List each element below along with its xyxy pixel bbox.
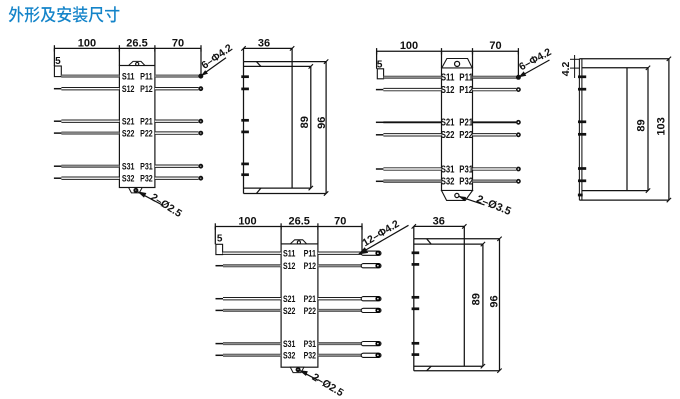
svg-text:S12: S12: [283, 261, 295, 271]
svg-text:P32: P32: [459, 177, 473, 188]
svg-text:P12: P12: [140, 84, 153, 94]
svg-text:26.5: 26.5: [126, 37, 147, 49]
tick side-view-3 89-dim bottom end: [481, 364, 485, 368]
svg-text:P21: P21: [304, 294, 316, 304]
svg-text:S22: S22: [441, 130, 455, 141]
diagram3 extension line box-right: [317, 227, 319, 244]
svg-text:S32: S32: [122, 174, 135, 184]
wire diagram1 lead row2 (left): [61, 88, 119, 90]
tick side-view-3 96-dim top end: [497, 237, 501, 241]
tick side2 103-dim bottom: [667, 198, 671, 202]
wire diagram1 lead row5 (left): [61, 165, 119, 167]
diagram3 extension line box-left: [280, 227, 282, 244]
diagram3 dim tick box-left: [280, 223, 282, 229]
diagram2 top flange (chamfered, hole): [442, 59, 472, 68]
side-view-3 body top line (outer): [414, 238, 500, 240]
tick side-view-3 36-dim left end: [412, 224, 416, 228]
tick side-view-1 96-dim bottom end: [324, 191, 328, 195]
side-view-1 terminal stub row4: [241, 131, 249, 134]
svg-text:26.5: 26.5: [288, 215, 309, 227]
tick side-view-1 36-dim left end: [241, 46, 245, 50]
diagram1 solder terminal dot row1: [198, 74, 203, 79]
side-view-1 extension right: [291, 48, 293, 61]
tick side-view-1 36-dim right end: [290, 46, 294, 50]
wire diagram2 lead S row1 (left): [384, 76, 442, 78]
side-view-3 89 dim line: [482, 244, 484, 366]
diagram2 lead end square (5mm): [377, 69, 383, 79]
side-view-1 body bottom line (inner): [244, 187, 311, 189]
side-view-1 width dim line (36): [244, 47, 293, 49]
side-view-1 body top line (inner): [244, 65, 311, 67]
svg-text:P32: P32: [304, 351, 316, 361]
svg-text:P11: P11: [140, 72, 153, 82]
diagram1 solder terminal dot row4: [198, 131, 203, 136]
diagram3 extension line right: [361, 227, 363, 251]
svg-text:P22: P22: [459, 130, 473, 141]
svg-text:5: 5: [217, 233, 223, 244]
svg-text:P22: P22: [140, 129, 153, 139]
diagram2 top dimension line: [377, 50, 519, 52]
side-view-1 terminal stub row6: [241, 173, 249, 176]
side2 terminal stub row6: [578, 179, 586, 182]
side-view-3 body front edge: [463, 239, 465, 366]
diagram1 top dimension line: [54, 47, 201, 49]
diagram3 top mounting lug (trapezoid + hole): [290, 240, 306, 244]
diagram2 solder terminal dot row2: [516, 87, 521, 92]
diagram1 solder terminal dot row3: [198, 119, 203, 124]
bare wire tip diagram2 row3 left: [376, 121, 384, 123]
side-view-1 96 dim line: [325, 62, 327, 194]
diagram3 spade lug terminal row5: [361, 342, 381, 346]
diagram1 extension line left: [53, 48, 55, 66]
side2 103 dim line: [668, 59, 670, 200]
side2 rail bottom clip: [578, 194, 583, 197]
svg-text:70: 70: [172, 37, 184, 49]
side-view-1 terminal stub row1: [241, 75, 249, 78]
side2 terminal stub row1: [578, 75, 586, 78]
side2 body top line (inner): [582, 67, 648, 69]
side-view-3 body top line (inner): [414, 243, 483, 245]
side-view-3 extension right: [463, 226, 465, 238]
svg-text:S11: S11: [441, 73, 455, 84]
diagram2 dim tick box-right: [472, 48, 474, 54]
side-view-1 terminal stub row3: [241, 119, 249, 122]
svg-text:70: 70: [489, 40, 501, 52]
side2 body front edge: [626, 68, 628, 191]
side-view-3 bottom chamfer: [427, 366, 432, 371]
diagram1 dim tick box-left: [118, 45, 120, 51]
diagram1 dim tick left: [53, 45, 55, 51]
svg-text:S21: S21: [283, 294, 295, 304]
side-view-1 bottom chamfer: [256, 188, 261, 193]
svg-text:P21: P21: [459, 118, 473, 129]
wire diagram2 lead row4 (right): [473, 134, 517, 136]
diagram2 extension line left: [376, 51, 378, 69]
side-view-3 width dim line (36): [414, 225, 465, 227]
wire diagram3 lead row3 (right): [318, 298, 362, 300]
wire diagram3 lead row5 (right): [318, 342, 362, 344]
svg-text:36: 36: [433, 215, 445, 227]
diagram3 relay body outline: [281, 244, 318, 367]
wire diagram3 lead row4 (right): [318, 309, 362, 311]
wire diagram2 lead row2 (left): [383, 88, 441, 90]
wire diagram3 lead row3 (left): [223, 298, 281, 300]
diagram2 dim tick left: [376, 48, 378, 54]
bare wire tip diagram3 row6 left: [216, 354, 224, 356]
wire diagram3 lead row2 (right): [318, 265, 362, 267]
side2 body bottom line (outer): [579, 199, 669, 201]
diagram1 top mounting lug (trapezoid + hole): [129, 61, 145, 65]
diagram1 solder terminal dot row6: [198, 176, 203, 181]
tick side2 103-dim top: [667, 57, 671, 61]
svg-text:S31: S31: [441, 164, 455, 175]
diagram2 solder terminal dot row3: [516, 120, 521, 125]
diagram1 relay body outline: [119, 66, 154, 188]
side-view-1 body front edge: [291, 62, 293, 189]
diagram1 leader + label 6-Φ4.2: [199, 42, 235, 76]
wire diagram2 lead row4 (left): [383, 134, 441, 136]
svg-text:36: 36: [258, 37, 270, 49]
svg-text:89: 89: [636, 119, 648, 131]
wire diagram2 lead row2 (right): [473, 88, 517, 90]
side-view-1 top chamfer: [256, 62, 261, 67]
svg-text:100: 100: [400, 40, 418, 52]
wire diagram3 lead row2 (left): [223, 265, 281, 267]
bare wire tip diagram3 row3 left: [216, 298, 224, 300]
wire diagram1 lead row6 (right): [155, 177, 199, 179]
side-view-1 extension left: [243, 48, 245, 61]
bare wire tip diagram2 row5 left: [376, 168, 384, 170]
wire diagram3 lead row6 (left): [223, 354, 281, 356]
svg-text:96: 96: [489, 295, 501, 307]
diagram3 leader + label 2-Ø2.5: [299, 370, 346, 399]
wire diagram1 lead row5 (right): [155, 165, 199, 167]
wire diagram3 lead row5 (left): [223, 342, 281, 344]
svg-text:S21: S21: [441, 118, 455, 129]
bare wire tip diagram1 row4 left: [54, 132, 62, 134]
bare wire tip diagram2 row2 left: [376, 89, 384, 91]
diagram2 solder terminal dot row6: [516, 179, 521, 184]
diagram2 relay body outline: [442, 68, 473, 191]
diagram2 dim tick right: [517, 48, 519, 54]
side-view-3 body bottom line (outer): [414, 370, 500, 372]
bare wire tip diagram3 row4 left: [216, 309, 224, 311]
bare wire tip diagram3 row2 left: [216, 265, 224, 267]
side-view-3 top chamfer: [427, 239, 432, 244]
svg-text:S31: S31: [283, 339, 295, 349]
wire diagram3 lead row4 (left): [223, 309, 281, 311]
wire diagram1 lead S row1 (left): [61, 75, 119, 77]
diagram3 spade lug terminal row4: [361, 308, 381, 312]
bare wire tip diagram2 row6 left: [376, 180, 384, 182]
bare wire tip diagram3 row5 left: [216, 343, 224, 345]
svg-text:100: 100: [78, 37, 96, 49]
side-view-3 terminal stub row2: [412, 263, 420, 266]
diagram1 extension line box-left: [118, 48, 120, 65]
side2 4.2 dim ticks + line: [570, 58, 580, 60]
svg-text:P31: P31: [140, 162, 153, 172]
wire diagram1 lead row4 (left): [61, 132, 119, 134]
svg-text:96: 96: [316, 117, 328, 129]
side2 mounting rail (double line): [578, 59, 580, 200]
wire diagram2 lead row3 (left): [383, 121, 441, 123]
side2 89 dim line: [647, 68, 649, 191]
wire diagram3 lead S row1 (left): [223, 252, 282, 254]
svg-text:P31: P31: [459, 164, 473, 175]
wire diagram1 lead row3 (left): [61, 120, 119, 122]
svg-text:S22: S22: [283, 306, 295, 316]
tick side-view-1 89-dim top end: [309, 64, 313, 68]
tick side-view-3 96-dim bottom end: [497, 369, 501, 373]
svg-text:S22: S22: [122, 129, 135, 139]
wire diagram3 lead row6 (right): [318, 354, 362, 356]
tick side-view-3 89-dim top end: [481, 242, 485, 246]
svg-text:P12: P12: [459, 85, 473, 96]
diagram2 extension line box-right: [472, 51, 474, 68]
tick side2 89-dim top: [646, 66, 650, 70]
side-view-3 terminal stub row6: [412, 353, 420, 356]
side-view-3 terminal stub row3: [412, 296, 420, 299]
title 外形及安装尺寸: [9, 6, 120, 22]
svg-text:P31: P31: [304, 339, 316, 349]
bare wire tip diagram1 row3 left: [54, 120, 62, 122]
wire diagram2 lead row5 (left): [383, 168, 441, 170]
wire diagram2 lead row5 (right): [473, 168, 517, 170]
side2 body bottom line (inner): [582, 190, 648, 192]
wire diagram1 lead row1 (right): [155, 75, 199, 77]
diagram3 top dimension line: [215, 226, 362, 228]
side-view-3 96 dim line: [499, 239, 501, 371]
side-view-3 extension left: [413, 226, 415, 238]
diagram2 dim tick box-left: [441, 48, 443, 54]
diagram1 lead end square (5mm): [54, 66, 61, 77]
side-view-1 body left edge: [243, 62, 245, 194]
diagram3 bottom mounting lug (trapezoid + hole 2-Ø2.5): [290, 367, 304, 372]
side2 terminal stub row2: [578, 88, 586, 91]
side-view-3 terminal stub row1: [412, 251, 420, 254]
side2 body top line (outer): [579, 58, 669, 60]
svg-text:S32: S32: [283, 351, 295, 361]
diagram3 dim tick box-right: [317, 223, 319, 229]
side2 terminal stub row3: [578, 120, 586, 123]
svg-text:P22: P22: [304, 306, 316, 316]
svg-text:P12: P12: [304, 261, 316, 271]
diagram3 spade lug terminal row6: [361, 353, 381, 357]
svg-text:P21: P21: [140, 117, 153, 127]
wire diagram2 lead row6 (left): [383, 180, 441, 183]
svg-text:P32: P32: [140, 174, 153, 184]
wire diagram2 lead row1 (right): [473, 76, 517, 78]
side-view-1 89 dim line: [310, 66, 312, 188]
bare wire tip diagram1 row5 left: [54, 165, 62, 167]
diagram1 solder terminal dot row5: [198, 164, 203, 169]
wire diagram1 lead row2 (right): [155, 88, 199, 90]
svg-text:S32: S32: [441, 177, 455, 188]
side-view-1 terminal stub row2: [241, 88, 249, 91]
side-view-3 terminal stub row5: [412, 342, 420, 345]
side-view-1 terminal stub row5: [241, 163, 249, 166]
diagram2 leader + label 2-Ø3.5: [458, 193, 513, 218]
wire diagram1 lead row6 (left): [61, 177, 119, 179]
diagram3 leader + label 12-Φ4.2: [358, 218, 409, 255]
bare wire tip diagram1 row2 left: [54, 88, 62, 90]
diagram3 spade lug terminal row1: [361, 251, 381, 255]
diagram3 lead end square (5mm): [216, 244, 223, 254]
diagram1 extension line box-right: [154, 48, 156, 65]
diagram1 bottom mounting lug (trapezoid + hole 2-Ø2.5): [129, 188, 143, 193]
wire diagram1 lead row3 (right): [155, 120, 199, 122]
diagram2 solder terminal dot row1: [516, 75, 521, 80]
side-view-3 body bottom line (inner): [414, 365, 483, 367]
tick side-view-3 36-dim right end: [462, 224, 466, 228]
svg-text:S21: S21: [122, 117, 135, 127]
wire diagram3 lead row1 (right): [318, 252, 362, 254]
side2 terminal stub row5: [578, 167, 586, 170]
svg-text:P11: P11: [304, 249, 316, 259]
svg-text:S11: S11: [283, 249, 295, 259]
diagram2 solder terminal dot row4: [516, 132, 521, 137]
diagram3 spade lug terminal row2: [361, 264, 381, 268]
svg-text:89: 89: [299, 116, 311, 128]
tick side2 89-dim bottom: [646, 188, 650, 192]
svg-text:103: 103: [656, 117, 668, 135]
svg-text:4.2: 4.2: [560, 62, 572, 77]
diagram3 dim tick left: [214, 223, 216, 229]
wire diagram1 lead row4 (right): [155, 132, 199, 134]
diagram1 extension line right: [200, 48, 202, 73]
svg-text:5: 5: [55, 56, 61, 67]
diagram1 solder terminal dot row2: [198, 86, 203, 91]
diagram3 spade lug terminal row3: [361, 297, 381, 301]
diagram1 dim tick box-right: [154, 45, 156, 51]
side2 terminal stub row4: [578, 133, 586, 136]
diagram1 leader + label 2-Ø2.5: [137, 191, 184, 220]
wire diagram2 lead row6 (right): [473, 180, 517, 183]
svg-text:S12: S12: [441, 85, 455, 96]
diagram2 extension line right: [517, 51, 519, 75]
svg-text:89: 89: [470, 293, 482, 305]
svg-text:P11: P11: [459, 73, 473, 84]
diagram3 dim tick right: [361, 223, 363, 229]
tick side-view-1 96-dim top end: [324, 59, 328, 63]
svg-text:100: 100: [238, 215, 256, 227]
diagram2 bottom flange (chamfered, hole 2-Ø3.5): [442, 191, 473, 201]
diagram2 leader + label 6-Φ4.2: [517, 46, 554, 77]
svg-text:S31: S31: [122, 162, 135, 172]
diagram2 solder terminal dot row5: [516, 167, 521, 172]
side-view-3 body left edge: [413, 239, 415, 371]
diagram2 extension line box-left: [441, 51, 443, 68]
side-view-3 terminal stub row4: [412, 307, 420, 310]
bare wire tip diagram1 row6 left: [54, 177, 62, 179]
side-view-1 body bottom line (outer): [244, 193, 327, 195]
side-view-1 body top line (outer): [244, 61, 327, 63]
bare wire tip diagram2 row4 left: [376, 134, 384, 136]
svg-text:S11: S11: [122, 72, 135, 82]
wire diagram2 lead row3 (right): [473, 121, 517, 123]
svg-text:70: 70: [334, 215, 346, 227]
tick side-view-1 89-dim bottom end: [309, 186, 313, 190]
diagram3 extension line left: [214, 227, 216, 245]
svg-text:S12: S12: [122, 84, 135, 94]
diagram1 dim tick right: [200, 45, 202, 51]
